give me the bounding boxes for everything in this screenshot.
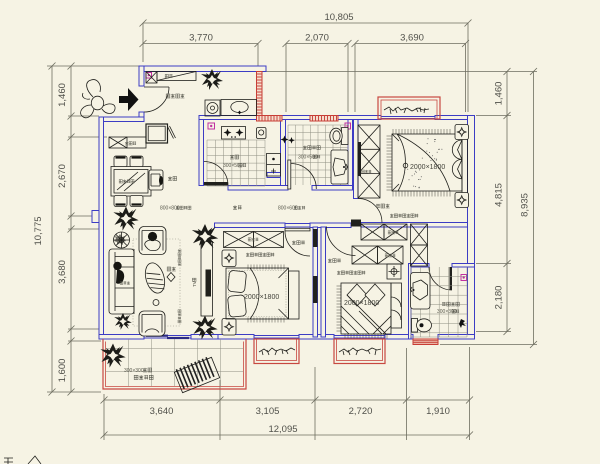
armchair bottom — [139, 311, 165, 336]
kitchen tile grid — [207, 140, 265, 186]
BED3 closets lower row — [352, 246, 378, 264]
svg-text:10,775: 10,775 — [33, 216, 44, 245]
wall: right outer — [468, 116, 475, 340]
room label entry — [166, 94, 184, 98]
coffee table — [142, 261, 168, 296]
armchair top — [139, 227, 166, 255]
bath2 door — [288, 160, 291, 189]
bath2 toilet — [342, 128, 349, 145]
svg-text:2000×1800: 2000×1800 — [244, 294, 279, 301]
dim 3,690 — [355, 43, 466, 45]
balcony labels — [124, 368, 152, 374]
extension lines top row2 — [258, 44, 466, 113]
bed3 nightstand plus — [387, 264, 401, 279]
BATH3 tile grid — [411, 267, 467, 337]
svg-text:300×300: 300×300 — [124, 368, 144, 374]
dim 1,460 left — [70, 66, 72, 392]
bay2 plant branch — [259, 348, 295, 355]
plant entry — [201, 69, 223, 90]
sideboard — [109, 137, 146, 148]
bottom ext verticals — [104, 347, 470, 440]
bed3 door arc — [327, 227, 356, 256]
dim 12,095 bottom — [104, 434, 470, 436]
svg-text:2000×1800: 2000×1800 — [344, 300, 379, 307]
bath3 vanity — [411, 273, 431, 310]
washing machine — [205, 100, 220, 116]
rug deco circle — [153, 300, 159, 306]
TV cabinet — [201, 242, 213, 317]
wall: left pier bump — [92, 211, 104, 223]
wall: main top (bath2-master) — [338, 116, 381, 120]
corner mark bottom-left — [4, 458, 13, 464]
dining table — [111, 167, 151, 197]
BED3 closets right col — [411, 224, 428, 245]
rug vertical labels — [178, 249, 181, 266]
wall: bottom bd2 segs — [218, 335, 254, 340]
wall: entry top — [139, 66, 266, 72]
wall: entry left — [139, 66, 144, 86]
wall: main top (kitchen) — [199, 116, 257, 120]
plant balcony — [100, 344, 125, 368]
wall: bed2 right — [313, 227, 318, 337]
dining chairs top — [114, 156, 127, 167]
BED3 closets top row — [361, 224, 384, 240]
kitchen door — [204, 182, 228, 186]
bay window master — [378, 97, 440, 119]
svg-text:12,095: 12,095 — [268, 424, 297, 435]
bay2 opening thin lines — [254, 336, 299, 339]
svg-text:3,770: 3,770 — [189, 33, 213, 44]
master bed label — [403, 163, 408, 168]
dim 10,775 left — [51, 66, 53, 392]
bay master opening thin lines — [381, 117, 435, 119]
bath3 glyph — [459, 319, 466, 328]
wall: main top (bath2 left part) — [282, 116, 310, 120]
wall: living bottom left seg — [99, 335, 144, 340]
extension lines top row1 — [143, 23, 468, 112]
svg-text:2,720: 2,720 — [349, 406, 373, 417]
wall: bed3 left — [321, 227, 326, 337]
wall: step top-left horizontal — [99, 117, 144, 122]
wall: kitchen counter jog — [267, 173, 281, 178]
sofa tiny label — [120, 281, 130, 284]
rug deco diamond — [167, 273, 175, 282]
svg-text:3,640: 3,640 — [150, 406, 174, 417]
svg-text:2000×1800: 2000×1800 — [410, 164, 445, 171]
round side table — [114, 232, 130, 248]
master wardrobe column — [358, 125, 380, 198]
human figure — [91, 96, 103, 110]
svg-text:3,105: 3,105 — [256, 406, 280, 417]
bath3 door — [450, 267, 453, 290]
room label bath2 — [303, 146, 320, 150]
kitchen sink column — [267, 154, 281, 177]
bath3 toilet — [412, 319, 418, 333]
bay window bed2 — [254, 339, 299, 364]
wall: corridor bottom / bedrooms top — [215, 223, 286, 228]
svg-text:1,460: 1,460 — [57, 83, 68, 107]
room label master — [376, 204, 389, 208]
dim line 10,805 top — [143, 22, 468, 24]
wall: bath3 top — [409, 264, 430, 268]
wall: corridor top (kitchen/bath bottom) — [228, 186, 288, 191]
room label kitchen — [230, 155, 239, 159]
svg-text:1,600: 1,600 — [57, 359, 68, 383]
bed3 — [341, 283, 391, 334]
plant living — [192, 316, 217, 340]
dim 1,460 right — [506, 72, 508, 332]
wardrobe vertical label — [362, 170, 372, 173]
window: entry right red column — [257, 72, 263, 116]
wall: main top (master right of bay) — [435, 116, 475, 120]
room label dining — [168, 176, 177, 180]
svg-text:TV: TV — [192, 281, 197, 287]
bed2 — [226, 268, 289, 319]
balcony red border — [103, 339, 246, 389]
window: kitchen top red — [257, 116, 283, 122]
svg-text:3,680: 3,680 — [57, 260, 68, 284]
entry counter basin — [221, 100, 257, 116]
svg-text:1,910: 1,910 — [426, 406, 450, 417]
marker: kitchen gas — [208, 123, 215, 129]
bath2 vanity — [331, 150, 348, 184]
rug — [133, 239, 180, 326]
marker: entry corner — [146, 73, 152, 79]
room label bed2 — [292, 241, 305, 245]
sliding door to balcony — [144, 336, 191, 339]
svg-text:4,815: 4,815 — [494, 183, 505, 207]
svg-text:3,690: 3,690 — [400, 33, 424, 44]
window: bath2 top red — [310, 116, 338, 122]
bed2 nightstands — [222, 250, 236, 267]
svg-text:300×500: 300×500 — [223, 163, 243, 169]
wall: kitchen left — [199, 120, 204, 186]
master bed rug fringe — [387, 129, 451, 197]
room label living — [167, 267, 176, 271]
wall: left outer — [99, 117, 104, 337]
wall: master left — [354, 120, 359, 199]
wall: kitchen right / bath2 left — [281, 120, 286, 186]
svg-text:2,670: 2,670 — [57, 164, 68, 188]
bay3 plant branch — [339, 348, 381, 355]
marker: bath3 — [461, 275, 467, 281]
plant dining — [113, 207, 138, 231]
master bed — [392, 134, 462, 191]
master headboard — [462, 131, 468, 195]
bay window bed3 — [334, 339, 385, 364]
svg-text:2,180: 2,180 — [494, 286, 505, 310]
svg-text:8,935: 8,935 — [520, 193, 531, 217]
window: bath3 bottom red — [413, 339, 438, 345]
lounge mat — [174, 355, 220, 392]
wardrobe track bar — [358, 142, 362, 176]
bed3 rug fringe — [337, 286, 388, 339]
entry door arc — [144, 87, 169, 112]
master nightstands — [455, 125, 469, 140]
master pillows fan — [452, 140, 462, 159]
entry arrow — [119, 88, 139, 111]
svg-text:800×600: 800×600 — [278, 206, 298, 212]
bed2 door — [285, 228, 310, 231]
svg-text:2,070: 2,070 — [305, 33, 329, 44]
plant small by sofa — [114, 313, 132, 330]
bay3 opening thin lines — [334, 336, 385, 339]
svg-text:1,460: 1,460 — [494, 82, 505, 106]
dim 3,770 — [143, 43, 258, 45]
room label bed3 — [328, 259, 341, 263]
svg-text:10,805: 10,805 — [324, 12, 353, 23]
dim 2,070 — [286, 43, 348, 45]
dining cart right — [149, 170, 163, 190]
room label bath3 — [442, 302, 459, 306]
BALCONY — [106, 339, 244, 387]
entry lower cabinet — [146, 124, 168, 143]
stove — [222, 127, 246, 140]
dim 3,640 bottom — [104, 399, 470, 401]
entry long cabinet — [157, 72, 196, 81]
plant bed2 — [192, 224, 218, 249]
bed3 side cabinet — [391, 283, 402, 328]
bed2 rug fringe — [248, 265, 284, 323]
bed2 bench — [289, 271, 300, 319]
wall: bath3 left — [409, 264, 412, 340]
right ext horizontals — [266, 72, 537, 345]
door threshold bed3 — [351, 220, 361, 227]
wall: bath2 right — [348, 120, 353, 186]
wall: living bottom right seg — [191, 335, 219, 340]
bath2 tile grid — [288, 125, 348, 185]
dining chairs bottom — [114, 196, 127, 207]
sofa — [109, 249, 134, 314]
left ext horizontals — [47, 66, 139, 392]
bay plant branch — [384, 107, 429, 114]
bath2 stars deco — [281, 136, 289, 144]
corridor floor labels — [160, 206, 191, 212]
shoe cabinet small — [146, 72, 157, 84]
fridge — [257, 128, 267, 139]
master door arc — [358, 199, 382, 223]
bed2 wardrobe — [224, 232, 254, 248]
marker: bath2 corner — [345, 123, 351, 129]
dim 8,935 right — [533, 72, 535, 345]
